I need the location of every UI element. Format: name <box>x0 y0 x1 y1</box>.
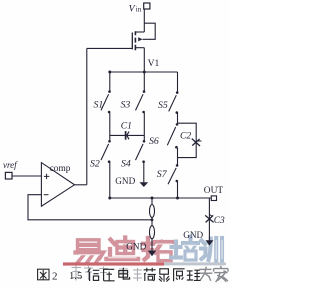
capacitor C1 symbol <box>126 131 129 140</box>
terminal OUT square <box>211 196 216 201</box>
svg-text:S1: S1 <box>94 100 104 111</box>
watermark char 培 <box>171 237 198 261</box>
wire bottom rail OUT <box>110 197 211 199</box>
terminal vref square <box>5 172 12 179</box>
svg-text:comp: comp <box>50 164 71 174</box>
switch S3 <box>136 72 146 141</box>
node V1 dot <box>143 71 146 74</box>
watermark char 拓 <box>143 238 173 261</box>
wire source drop to node V1 <box>143 48 145 72</box>
transistor V1 channel dashes <box>134 31 136 50</box>
op-amp minus sign <box>44 194 49 196</box>
svg-text:S7: S7 <box>157 169 168 180</box>
caption char 倍 <box>88 269 100 282</box>
svg-text:GND: GND <box>126 242 146 252</box>
watermark 易迪拓培训 logo <box>63 237 226 266</box>
svg-text:GND: GND <box>183 230 203 240</box>
watermark char 训 <box>201 238 222 261</box>
switch S2 <box>101 140 111 198</box>
wire vref input <box>12 175 41 177</box>
wire feedback to op-amp minus <box>28 195 152 220</box>
svg-text:V1: V1 <box>148 58 160 69</box>
svg-text:OUT: OUT <box>204 186 224 196</box>
caption 图 2 <box>38 269 49 280</box>
watermark white vein highlights <box>79 242 172 257</box>
svg-text:in: in <box>136 6 142 14</box>
gray slogan text 专家 bottom right <box>199 266 228 282</box>
switch S5 <box>169 72 179 123</box>
svg-text:GND: GND <box>115 176 135 186</box>
watermark underline red part <box>63 262 164 265</box>
resistor R1 <box>150 198 155 218</box>
node dot rail-S7 <box>176 197 179 200</box>
wire bulk loop from Vin to body arrow <box>143 23 156 39</box>
op-amp U1 comp <box>41 163 74 207</box>
wire op-amp output riser <box>86 48 88 184</box>
svg-text:1.5: 1.5 <box>69 271 82 282</box>
terminal Vin square <box>144 3 150 9</box>
capacitor C3 branch wire <box>208 198 210 241</box>
watermark char 迪 <box>107 238 139 260</box>
wire Vin drop to drain <box>143 9 145 32</box>
transistor V1 source stub <box>135 47 144 49</box>
capacitor C2 symbol <box>192 139 202 146</box>
switch S1 <box>101 72 111 141</box>
transistor V1 body arrow <box>138 37 142 41</box>
caption char 泵 <box>159 269 170 282</box>
wire gate to feedback <box>87 47 133 49</box>
caption char 理 <box>187 270 201 280</box>
ground arrow under S4 <box>139 182 148 187</box>
node dot rail-divider <box>151 197 154 200</box>
transistor V1 gate bar <box>131 33 133 50</box>
node dot rail-S2 <box>108 197 111 200</box>
transistor V1 drain stub <box>135 31 144 33</box>
svg-text:V: V <box>129 3 136 14</box>
switch S7 <box>168 158 178 198</box>
svg-text:S4: S4 <box>121 159 131 170</box>
wire op-amp output stub <box>75 184 87 186</box>
svg-text:S6: S6 <box>149 136 159 147</box>
resistor R2 <box>150 218 155 252</box>
C2 loop top wire <box>178 123 197 157</box>
caption char 荷 <box>144 268 156 281</box>
svg-text:C2: C2 <box>180 131 191 142</box>
watermark underline gray-blue part <box>164 262 226 265</box>
switch S6 <box>167 123 178 158</box>
watermark char 易 <box>76 240 104 263</box>
svg-text:C3: C3 <box>214 216 225 226</box>
svg-text:S3: S3 <box>121 100 131 111</box>
wire top rail <box>110 71 178 73</box>
faint gray watermark text fragments behind caption <box>72 266 143 282</box>
svg-text:2: 2 <box>52 271 58 283</box>
caption char 压 <box>103 269 115 281</box>
op-amp plus sign <box>44 174 49 179</box>
ground arrow under C3 <box>205 240 213 245</box>
caption char 电 <box>119 268 130 279</box>
capacitor C1 link wire <box>110 134 145 136</box>
switch S4 <box>136 140 146 183</box>
node dot rail left <box>108 71 111 74</box>
svg-text:S2: S2 <box>90 159 100 170</box>
ground arrow under divider <box>148 251 156 257</box>
node dot feedback tap <box>151 218 154 221</box>
svg-text:vref: vref <box>3 160 18 170</box>
caption char 原 <box>173 269 185 281</box>
svg-text:S5: S5 <box>158 100 168 111</box>
capacitor C3 symbol <box>205 214 213 222</box>
svg-text:C1: C1 <box>121 121 132 132</box>
